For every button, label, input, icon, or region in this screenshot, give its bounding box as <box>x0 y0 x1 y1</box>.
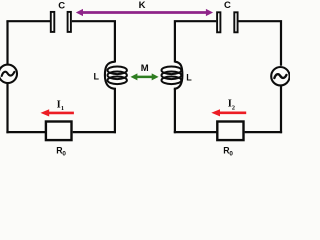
svg-text:M: M <box>141 63 149 74</box>
label I1 <box>57 99 65 112</box>
label R0 (left resistor) <box>56 146 66 158</box>
wire capacitor to top-right corner <box>239 21 282 66</box>
label R0 (right resistor) <box>223 146 233 158</box>
inductor L2 coil <box>162 62 183 89</box>
current arrow I2 (red, pointing left) <box>211 109 246 116</box>
svg-text:2: 2 <box>232 104 235 111</box>
wire right vertical bottom <box>280 85 282 133</box>
capacitor C1 left plate <box>51 12 55 32</box>
current arrow I1 (red, pointing left) <box>41 109 74 116</box>
svg-text:0: 0 <box>62 150 66 157</box>
wire left vertical bottom <box>6 83 8 133</box>
capacitor C1 right plate <box>68 12 71 32</box>
label I2 <box>228 98 235 111</box>
wire left vertical top (source to top-left corner) <box>6 21 8 65</box>
svg-text:L: L <box>186 72 192 82</box>
wire top-left horizontal to capacitor <box>6 20 50 22</box>
inductor L1 coil <box>105 62 127 89</box>
capacitor C2 left plate <box>217 12 220 32</box>
coupling arrow K (purple, double-headed) <box>76 9 213 16</box>
svg-text:1: 1 <box>61 105 64 112</box>
svg-text:C: C <box>58 0 65 11</box>
wire right loop left branch bottom <box>174 89 176 134</box>
resistor R0 right body <box>217 122 243 141</box>
wire top of right loop left branch <box>175 21 216 62</box>
wire bottom-left horizontal to resistor <box>6 131 45 133</box>
coupling arrow M (green, double-headed) <box>131 73 159 80</box>
svg-text:K: K <box>139 0 146 11</box>
ac source V1 <box>0 65 17 83</box>
resistor R0 left body <box>46 122 72 141</box>
capacitor C2 right plate <box>234 12 237 32</box>
svg-text:L: L <box>94 72 100 82</box>
ac source V2 <box>271 67 289 85</box>
wire resistor to left loop right branch <box>73 131 116 133</box>
svg-text:0: 0 <box>229 150 233 157</box>
wire resistor to bottom-right corner <box>245 131 283 133</box>
wire from capacitor to top-right corner of left loop <box>72 21 115 62</box>
wire left loop right branch bottom <box>114 89 116 134</box>
svg-text:C: C <box>224 0 231 11</box>
wire bottom right loop left segment <box>174 131 217 133</box>
